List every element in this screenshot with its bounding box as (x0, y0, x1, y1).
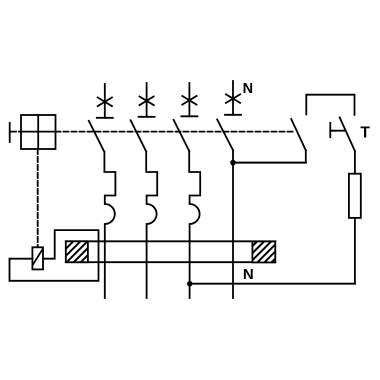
wire main contact to bus (305, 150, 307, 162)
wire test blade to resistor (354, 151, 356, 174)
pole L3 switch blade (174, 120, 190, 151)
terminal left actuator stub (9, 123, 11, 142)
secondary winding loop wire (10, 230, 99, 281)
pole L2 cross mark (140, 97, 154, 106)
main contact blade right (291, 119, 306, 150)
toroid core top line (66, 240, 275, 242)
pole L2 switch blade (131, 120, 147, 151)
pole L2 top lead (146, 83, 148, 117)
pole N cross mark (226, 94, 240, 103)
wire resistor down (354, 218, 356, 284)
trip coil relay (32, 247, 43, 269)
junction node test return (187, 281, 193, 287)
pole L1 switch blade (89, 121, 105, 152)
pole N switch blade (217, 120, 233, 151)
pole L3 conductor with winding (189, 151, 200, 298)
pole N top lead (232, 81, 234, 115)
svg-text:N: N (243, 266, 254, 283)
junction node N bus (230, 160, 236, 166)
wire test return horizontal (190, 283, 355, 285)
svg-text:T: T (360, 124, 370, 141)
pole L3 terminal tick (181, 115, 197, 117)
toroid core bottom line (66, 261, 275, 263)
resistor test (349, 174, 361, 218)
pole N conductor (232, 150, 234, 298)
wire dashed trip link vertical (37, 149, 39, 247)
pole L3 top lead (188, 83, 190, 116)
pole N terminal tick (225, 114, 241, 116)
svg-text:N: N (243, 81, 253, 97)
pole L1 cross mark (98, 98, 112, 107)
wire dashed actuator link right (56, 131, 294, 133)
wire dashed actuator link left (11, 131, 21, 133)
pole L2 terminal tick (139, 116, 155, 118)
staple terminal bracket (306, 95, 354, 115)
toroid core section right hatched (252, 241, 275, 262)
pole L1 conductor with winding (104, 152, 115, 298)
pole L3 cross mark (182, 96, 196, 105)
mechanism box (21, 115, 56, 149)
wire bus N-link horizontal (233, 162, 306, 164)
toroid core section left hatched (66, 241, 88, 262)
pole L2 conductor with winding (146, 152, 157, 299)
test button fixed contact (329, 123, 331, 137)
pole L1 top lead (104, 84, 106, 118)
test button blade (340, 118, 355, 152)
pole L1 terminal tick (97, 117, 113, 119)
